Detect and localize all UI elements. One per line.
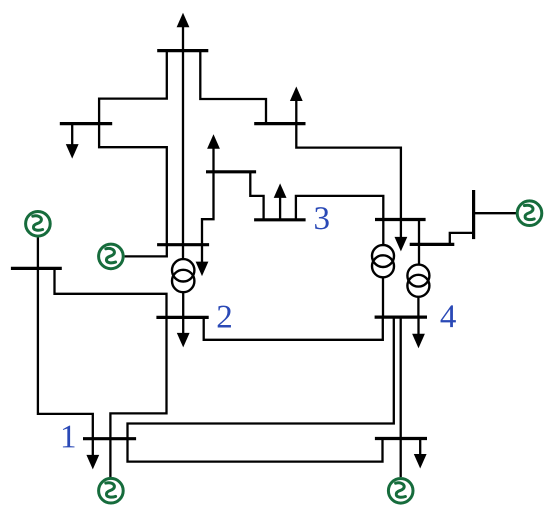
svg-text:2: 2 xyxy=(216,299,233,335)
svg-text:1: 1 xyxy=(60,419,77,455)
svg-text:4: 4 xyxy=(440,299,457,335)
svg-text:3: 3 xyxy=(313,201,330,237)
